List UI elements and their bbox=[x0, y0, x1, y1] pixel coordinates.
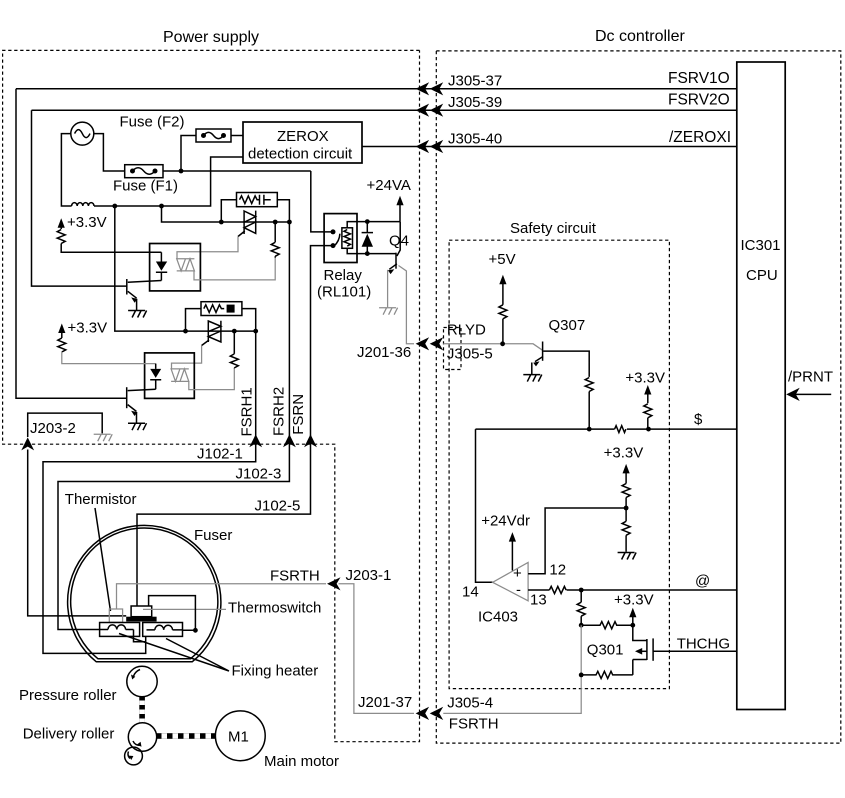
svg-text:CPU: CPU bbox=[746, 267, 778, 284]
wire snubber 2 leads bbox=[186, 309, 256, 332]
small guide roller bbox=[125, 747, 143, 765]
node +3.3V on $ bbox=[646, 427, 651, 432]
wire resistor 1 to optocoupler LED 1 bbox=[61, 244, 161, 253]
svg-text:FSRTH: FSRTH bbox=[270, 568, 320, 585]
wire branch up to fuse F2 bbox=[181, 136, 196, 172]
node RLYD junction bbox=[500, 341, 505, 346]
fuser drum (double outline, flat bottom) bbox=[68, 525, 221, 661]
node FSRTH junction bbox=[579, 673, 584, 678]
svg-text:+3.3V: +3.3V bbox=[625, 370, 665, 387]
svg-text:Fuse (F2): Fuse (F2) bbox=[120, 114, 185, 131]
wire heater drive line 1 (FSRH2 branch) bbox=[162, 206, 290, 222]
pressure roller bbox=[127, 666, 157, 696]
wire FSRH1 vertical bbox=[43, 331, 256, 653]
resistor Q301 lower bbox=[581, 671, 633, 678]
svg-text:12: 12 bbox=[549, 562, 566, 579]
wire /ZEROXI net J305-40 bbox=[362, 146, 737, 148]
svg-text:RLYD: RLYD bbox=[447, 322, 486, 339]
svg-text:M1: M1 bbox=[228, 729, 249, 746]
wire FSRV1O net J305-37 bbox=[16, 88, 737, 90]
svg-text:J305-40: J305-40 bbox=[448, 130, 502, 147]
motor M1 bbox=[215, 711, 265, 761]
wire triac 1 gate (gray) bbox=[238, 231, 245, 237]
wire PC2 output to resistor (gray) bbox=[189, 368, 235, 390]
wire J305-4 FSRTH to safety circuit (gray) bbox=[443, 675, 581, 714]
delivery roller bbox=[128, 723, 156, 751]
svg-text:13: 13 bbox=[530, 592, 547, 609]
resistor pull-up 2 bbox=[58, 338, 66, 352]
node feedback bbox=[579, 588, 584, 593]
resistor below node bbox=[580, 590, 582, 602]
fuse F1 bbox=[125, 165, 163, 178]
wire heater drive line 2 (FSRH1 branch) bbox=[115, 206, 256, 331]
wire triac 2 gate (gray) bbox=[202, 340, 209, 346]
optocoupler PC2 LED bbox=[155, 364, 157, 369]
connector J305-5 dashed outline bbox=[444, 328, 462, 370]
wire left heater exit loop bbox=[134, 630, 146, 642]
wire live line from inductor to ZEROX tap bbox=[94, 157, 243, 206]
svg-text:ZEROX: ZEROX bbox=[277, 128, 329, 145]
optocoupler PC1 photo-triac (gray) bbox=[177, 259, 195, 271]
snubber RC box 1 bbox=[237, 193, 278, 207]
wire $ line bbox=[476, 428, 737, 430]
node Q307-$/IC403 bbox=[587, 427, 592, 432]
wire relay coil top to +24VA node bbox=[347, 222, 367, 228]
svg-text:J102-5: J102-5 bbox=[255, 497, 301, 514]
svg-text:detection circuit: detection circuit bbox=[248, 146, 353, 163]
wire RLYD into safety circuit (gray) bbox=[443, 344, 542, 351]
ZEROX detection circuit box bbox=[243, 122, 362, 163]
optocoupler PC2 photo-triac (gray) bbox=[171, 369, 189, 382]
resistor +3.3V to $ bbox=[644, 404, 652, 418]
wire op-amp + input pin 12 to divider bbox=[528, 508, 626, 574]
thermistor (gray box) bbox=[109, 609, 122, 622]
Dc controller block (dashed outline) bbox=[436, 51, 841, 743]
node resistor top 1 bbox=[273, 220, 278, 225]
svg-text:Thermistor: Thermistor bbox=[65, 491, 137, 508]
svg-text:Fuse (F1): Fuse (F1) bbox=[113, 178, 178, 195]
optocoupler PC1 LED bbox=[160, 252, 162, 261]
svg-text:Main motor: Main motor bbox=[264, 753, 339, 770]
wire AC source right lead to Fuse F1 bbox=[94, 134, 125, 171]
wire PC1 output to resistor (gray) bbox=[194, 257, 275, 280]
node +3.3V Q301 bbox=[630, 623, 635, 628]
svg-text:(RL101): (RL101) bbox=[317, 284, 371, 301]
node diode top bbox=[365, 219, 370, 224]
shaft pressure-delivery (hatched) bbox=[139, 697, 145, 724]
fuse F2 bbox=[196, 129, 231, 142]
node live junction 1 bbox=[112, 204, 117, 209]
svg-text:FSRH2: FSRH2 bbox=[270, 387, 287, 436]
svg-text:@: @ bbox=[695, 573, 710, 590]
svg-text:$: $ bbox=[694, 411, 703, 428]
svg-text:Pressure roller: Pressure roller bbox=[19, 687, 117, 704]
svg-text:J203-1: J203-1 bbox=[346, 567, 392, 584]
svg-text:J203-2: J203-2 bbox=[30, 420, 76, 437]
ground Q307 bbox=[523, 375, 542, 382]
wire thermoswitch to right heater bbox=[149, 596, 196, 631]
svg-text:Q307: Q307 bbox=[549, 317, 586, 334]
svg-text:+3.3V: +3.3V bbox=[614, 592, 654, 609]
resistor Q301 upper bbox=[581, 622, 633, 629]
ground J203-2 (gray) bbox=[94, 434, 113, 441]
svg-text:THCHG: THCHG bbox=[677, 636, 730, 653]
resistor on pin 13 bbox=[549, 586, 566, 593]
relay RL101 box bbox=[324, 214, 357, 263]
transistor T2 bbox=[126, 387, 128, 408]
svg-text:J102-3: J102-3 bbox=[236, 465, 282, 482]
relay contacts bbox=[331, 229, 336, 234]
wire Q4 to J201-36 / RLYD (gray) bbox=[399, 266, 415, 344]
node diode bottom bbox=[365, 251, 370, 256]
svg-text:+24VA: +24VA bbox=[367, 177, 411, 194]
fixing heater left box bbox=[100, 623, 140, 637]
wire FSRN vertical bbox=[137, 171, 333, 606]
svg-text:J305-37: J305-37 bbox=[448, 73, 502, 90]
svg-text:Dc controller: Dc controller bbox=[595, 28, 685, 45]
wire from FSRV2O line down to transistor base (inner) bbox=[32, 110, 127, 286]
wire AC source left lead down to inductor line bbox=[61, 134, 71, 206]
svg-text:Safety circuit: Safety circuit bbox=[510, 220, 597, 237]
svg-text:/PRNT: /PRNT bbox=[788, 369, 833, 386]
svg-text:+5V: +5V bbox=[489, 251, 516, 268]
wire F2 to ZEROX detection circuit bbox=[231, 135, 243, 137]
optocoupler PC2 box bbox=[145, 353, 195, 399]
AC source bbox=[71, 122, 94, 145]
svg-text:Delivery roller: Delivery roller bbox=[23, 726, 115, 743]
node F1/F2 junction bbox=[179, 169, 184, 174]
svg-text:-: - bbox=[516, 582, 521, 599]
svg-text:+3.3V: +3.3V bbox=[68, 320, 108, 337]
resistor pull-up 1 bbox=[57, 230, 65, 244]
node resistor top 2 bbox=[232, 329, 237, 334]
svg-text:+24Vdr: +24Vdr bbox=[481, 513, 530, 530]
triac 1 bbox=[244, 211, 256, 234]
svg-text:J305-39: J305-39 bbox=[448, 94, 502, 111]
svg-text:J102-1: J102-1 bbox=[197, 446, 243, 463]
relay coil bbox=[342, 228, 353, 249]
svg-text:FSRV2O: FSRV2O bbox=[668, 92, 730, 109]
wire $ to op-amp output pin 14 bbox=[476, 429, 493, 582]
label Thermoswitch + pointer (gray) bbox=[143, 608, 226, 610]
node divider tap bbox=[624, 506, 629, 511]
wire resistor 2 to PC2 LED (gray) bbox=[62, 352, 156, 364]
thermoswitch body bbox=[131, 606, 152, 617]
Power supply block (dashed outline) bbox=[3, 50, 420, 741]
wire snubber 1 leads bbox=[221, 200, 289, 222]
wire FSRTH from thermistor to J203-1 (gray) bbox=[117, 584, 327, 609]
inductor (line filter coil) bbox=[72, 203, 94, 206]
snubber RC box 2 bbox=[201, 302, 242, 316]
resistor Q307 collector bbox=[585, 378, 593, 392]
wire FSRV2O net J305-39 bbox=[32, 109, 737, 111]
svg-text:+3.3V: +3.3V bbox=[67, 214, 107, 231]
svg-text:IC403: IC403 bbox=[478, 609, 518, 626]
svg-text:+: + bbox=[513, 565, 522, 582]
svg-text:FSRTH: FSRTH bbox=[449, 716, 499, 733]
svg-text:Q4: Q4 bbox=[389, 233, 409, 250]
svg-text:Fuser: Fuser bbox=[194, 527, 232, 544]
node FSRH1 drop bbox=[253, 329, 258, 334]
resistor on $ line bbox=[615, 426, 626, 433]
wire gray link between Q301 nodes bbox=[580, 625, 582, 675]
triac 2 bbox=[208, 321, 221, 342]
Safety circuit block (dashed outline) bbox=[449, 240, 669, 688]
ground Q4 (gray) bbox=[379, 308, 398, 315]
ground T1 bbox=[128, 311, 147, 318]
svg-text:FSRN: FSRN bbox=[290, 394, 307, 435]
wire op-amp - input pin 13 / @ line bbox=[528, 589, 737, 591]
svg-text:Thermoswitch: Thermoswitch bbox=[228, 600, 321, 617]
node live junction 2 bbox=[159, 204, 164, 209]
resistor triac gate 2 bbox=[230, 354, 238, 368]
svg-text:J305-4: J305-4 bbox=[447, 695, 493, 712]
optocoupler PC1 box bbox=[150, 244, 201, 291]
connector J203-2 bracket bbox=[28, 413, 103, 437]
svg-text:+3.3V: +3.3V bbox=[604, 445, 644, 462]
svg-text:J305-5: J305-5 bbox=[447, 346, 493, 363]
svg-text:Fixing heater: Fixing heater bbox=[232, 663, 319, 680]
wire relay coil bottom to Q4 base bbox=[347, 248, 396, 253]
node snubber 2 left bbox=[183, 329, 188, 334]
node FSRH2 drop bbox=[287, 220, 292, 225]
wire J203-1 to J201-37 (gray) bbox=[339, 584, 415, 714]
svg-text:J201-37: J201-37 bbox=[358, 694, 412, 711]
wire FSRH2 vertical bbox=[58, 222, 289, 630]
node right heater out bbox=[193, 628, 198, 633]
resistor divider lower bbox=[622, 521, 630, 535]
svg-text:FSRV1O: FSRV1O bbox=[668, 70, 730, 87]
resistor +5V pull-up bbox=[499, 305, 507, 319]
shaft delivery-motor (hatched) bbox=[157, 733, 216, 739]
diode flyback bbox=[366, 222, 368, 254]
svg-text:/ZEROXI: /ZEROXI bbox=[669, 129, 731, 146]
ground T2 bbox=[128, 423, 147, 430]
node snubber 1 left bbox=[219, 220, 224, 225]
ground divider bbox=[618, 553, 637, 560]
wire from FSRV1O line down to transistor base (left outer) bbox=[16, 89, 127, 398]
svg-text:FSRH1: FSRH1 bbox=[239, 387, 256, 436]
svg-text:Q301: Q301 bbox=[587, 642, 624, 659]
svg-text:Relay: Relay bbox=[324, 267, 363, 284]
svg-text:Power supply: Power supply bbox=[163, 29, 259, 46]
svg-text:J201-36: J201-36 bbox=[357, 344, 411, 361]
wire F1 output to FSRN drop bbox=[163, 170, 311, 172]
op-amp U IC301 CPU box bbox=[737, 62, 785, 710]
resistor triac gate 1 bbox=[271, 242, 279, 256]
fixing heater right box bbox=[143, 623, 183, 637]
svg-text:14: 14 bbox=[462, 584, 479, 601]
svg-text:IC301: IC301 bbox=[741, 237, 781, 254]
transistor T1 (FSRV1O driver... inner) bbox=[126, 279, 128, 295]
op-amp IC403 (gray triangle) bbox=[493, 562, 528, 600]
resistor divider upper bbox=[622, 484, 630, 498]
node Q301 upper bbox=[579, 623, 584, 628]
